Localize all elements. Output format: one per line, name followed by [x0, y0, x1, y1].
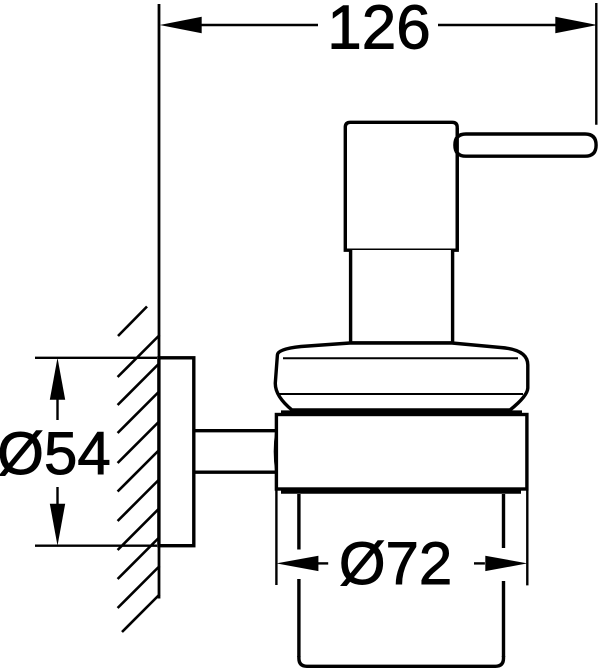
glass tumbler	[299, 494, 504, 666]
pump head right edge over lever	[456, 128, 459, 250]
pump neck	[351, 250, 453, 343]
svg-text:Ø72: Ø72	[339, 530, 452, 597]
wall hatching	[118, 307, 160, 633]
dimension D54: arrow down	[50, 504, 65, 546]
lid inner top line	[283, 357, 518, 359]
wall line	[158, 4, 161, 599]
dimension D72: arrow right	[485, 556, 527, 571]
dimension D54: dim line	[56, 396, 58, 420]
wall mount plate	[159, 358, 194, 546]
dimension 126: extension line right	[595, 3, 597, 125]
glass rim under holder	[281, 489, 521, 494]
holder ring	[276, 415, 527, 490]
dimension D54: extension lines	[35, 357, 157, 359]
lid (dispenser collar)	[275, 343, 528, 410]
wall arm	[194, 429, 277, 432]
dimension D72: arrow left	[276, 556, 318, 571]
pump lever	[455, 134, 596, 156]
dimension 126: arrow right	[555, 17, 597, 34]
dimension D54: arrow up	[50, 358, 65, 400]
svg-text:Ø54: Ø54	[0, 420, 111, 487]
dimension D72: dim line stubs	[318, 562, 328, 564]
pump head	[345, 122, 457, 250]
dimension 126: arrow left	[160, 17, 202, 34]
lid inner bottom line	[279, 393, 523, 395]
dimension D72: extension lines	[275, 490, 277, 585]
dimension 126: line	[199, 24, 556, 26]
svg-text:126: 126	[327, 0, 430, 63]
holder left fillet	[275, 432, 276, 471]
holder top thick edge	[281, 410, 522, 415]
